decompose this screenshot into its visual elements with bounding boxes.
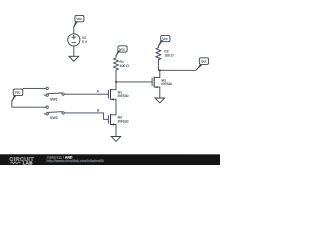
svg-text:IRF530: IRF530 [118, 94, 129, 98]
svg-text:Out: Out [201, 60, 207, 64]
svg-text:IRF530: IRF530 [161, 82, 172, 86]
svg-text:http://www.circuitlab.com/c8wb: http://www.circuitlab.com/c8wbm89 [46, 159, 103, 163]
svg-text:SW2: SW2 [50, 116, 58, 120]
svg-text:100 Ω: 100 Ω [164, 53, 174, 57]
svg-text:Vcc: Vcc [76, 17, 82, 21]
svg-text:Vcc: Vcc [15, 91, 21, 95]
svg-text:B: B [97, 108, 100, 112]
svg-text:A: A [97, 90, 100, 94]
svg-text:Vcc: Vcc [119, 47, 125, 51]
svg-text:SW1: SW1 [50, 97, 58, 101]
svg-text:5 V: 5 V [82, 40, 88, 44]
svg-text:LAB: LAB [23, 161, 33, 165]
svg-text:IRF530: IRF530 [118, 119, 129, 123]
svg-text:Vcc: Vcc [162, 37, 168, 41]
svg-text:100 Ω: 100 Ω [120, 64, 130, 68]
